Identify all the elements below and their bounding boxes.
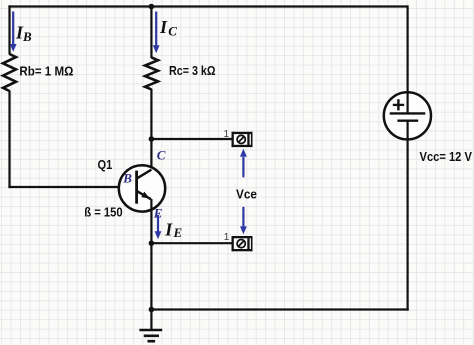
pin number 1 (bottom connector) xyxy=(224,232,230,243)
resistor Rb xyxy=(3,54,16,91)
junction ground node xyxy=(149,307,155,313)
voltage source Vcc xyxy=(384,92,431,139)
transistor Q1 xyxy=(119,165,165,211)
wire emitter (Q1 to node E to bottom) xyxy=(150,199,152,311)
measurement arrow Vce up xyxy=(240,149,247,178)
current arrow IE xyxy=(155,215,162,239)
svg-text:Rc= 3 kΩ: Rc= 3 kΩ xyxy=(169,63,216,78)
measurement arrow Vce down xyxy=(240,207,247,235)
svg-text:Vce: Vce xyxy=(236,187,257,202)
wire collector branch top (rail to Rc) xyxy=(150,5,152,58)
label IB xyxy=(15,22,32,44)
current arrow IC xyxy=(153,12,160,54)
svg-text:Vcc= 12 V: Vcc= 12 V xyxy=(420,149,473,164)
wire right vertical upper (rail to Vcc source) xyxy=(407,5,409,113)
svg-text:1: 1 xyxy=(224,129,230,140)
wire left vertical lower (Rb to base corner) xyxy=(8,91,10,189)
connector pad node C (pin 1) xyxy=(232,132,253,147)
svg-text:Rb= 1 MΩ: Rb= 1 MΩ xyxy=(19,64,73,79)
wire right vertical lower (source to bottom rail) xyxy=(407,121,409,311)
label terminal E xyxy=(153,205,163,220)
svg-text:1: 1 xyxy=(224,232,230,243)
svg-text:I: I xyxy=(164,220,173,240)
wire bottom rail xyxy=(151,308,408,310)
svg-text:E: E xyxy=(173,225,183,240)
label Vce xyxy=(236,187,257,202)
wire left vertical upper (to Rb) xyxy=(8,5,10,54)
label IC xyxy=(159,17,177,38)
svg-text:B: B xyxy=(122,171,132,186)
junction node E xyxy=(149,240,155,246)
svg-text:C: C xyxy=(157,148,166,163)
svg-text:Q1: Q1 xyxy=(98,157,113,172)
current arrow IB xyxy=(10,12,17,52)
label Vcc value xyxy=(420,149,473,164)
label Q1 xyxy=(98,157,113,172)
wire top rail xyxy=(8,5,407,7)
label IE xyxy=(164,220,182,241)
connector pad node E (pin 1) xyxy=(232,236,253,251)
label terminal B xyxy=(122,171,132,186)
junction top rail / Rc branch xyxy=(149,4,155,10)
svg-text:ß = 150: ß = 150 xyxy=(84,204,123,219)
label beta value xyxy=(84,204,123,219)
pin number 1 (top connector) xyxy=(224,129,230,140)
label Rb value xyxy=(19,64,73,79)
wire Rc to collector node and into Q1 xyxy=(150,89,152,170)
label Rc value xyxy=(169,63,216,78)
svg-text:B: B xyxy=(22,29,32,44)
junction node C xyxy=(149,136,155,142)
wire base (to Q1) xyxy=(8,186,135,188)
resistor Rc xyxy=(145,58,158,90)
wire node E to connector 1 xyxy=(151,242,232,244)
wire node C to connector 1 xyxy=(151,138,232,140)
ground xyxy=(139,310,162,342)
svg-text:C: C xyxy=(168,23,177,38)
label node C xyxy=(157,148,166,163)
svg-text:I: I xyxy=(159,17,168,37)
